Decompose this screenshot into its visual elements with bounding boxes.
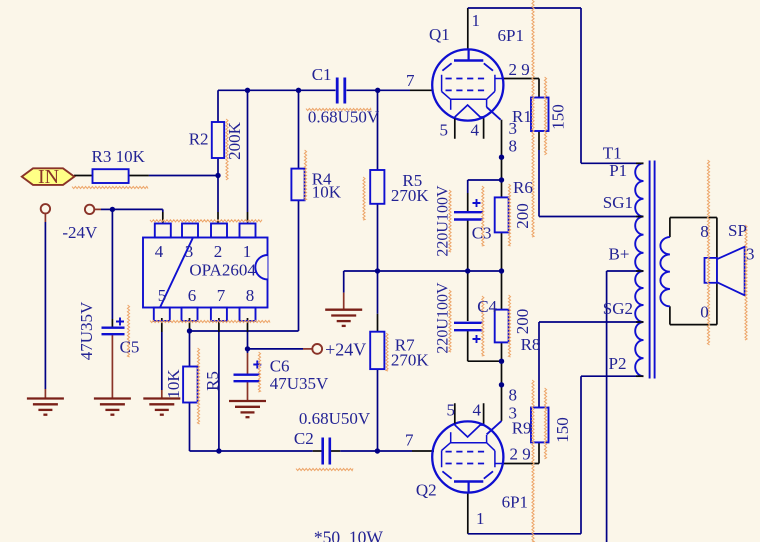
svg-text:10K: 10K (312, 183, 342, 202)
svg-text:P2: P2 (609, 354, 627, 373)
svg-text:47U35V: 47U35V (77, 301, 96, 360)
svg-text:270K: 270K (391, 186, 430, 205)
svg-text:P1: P1 (609, 161, 627, 180)
svg-text:6P1: 6P1 (502, 493, 528, 512)
svg-text:*50_10W: *50_10W (314, 528, 384, 542)
svg-text:T1: T1 (603, 144, 622, 163)
svg-text:3: 3 (746, 245, 755, 264)
svg-text:R2: R2 (189, 130, 209, 149)
svg-text:150: 150 (553, 417, 572, 443)
svg-text:1: 1 (472, 11, 481, 30)
svg-text:47U35V: 47U35V (270, 374, 329, 393)
svg-text:C3: C3 (472, 224, 492, 243)
svg-text:7: 7 (217, 286, 226, 305)
svg-text:Q2: Q2 (416, 481, 437, 500)
svg-text:R3 10K: R3 10K (92, 147, 146, 166)
svg-text:6P1: 6P1 (498, 26, 524, 45)
svg-text:220U100V: 220U100V (435, 185, 452, 257)
svg-text:C4: C4 (477, 297, 497, 316)
svg-text:+24V: +24V (325, 340, 366, 360)
svg-text:OPA2604: OPA2604 (189, 261, 256, 280)
svg-text:5: 5 (447, 401, 456, 420)
svg-text:200: 200 (513, 203, 532, 229)
svg-text:C2: C2 (294, 429, 314, 448)
svg-text:SP: SP (728, 221, 747, 240)
svg-text:R8: R8 (521, 335, 541, 354)
svg-text:C5: C5 (120, 338, 140, 357)
svg-text:IN: IN (38, 166, 59, 188)
svg-text:R5: R5 (203, 371, 222, 391)
svg-text:0: 0 (700, 303, 709, 322)
svg-text:200: 200 (513, 309, 532, 335)
svg-text:5: 5 (440, 121, 449, 140)
svg-text:0.68U50V: 0.68U50V (299, 409, 371, 428)
svg-text:8: 8 (700, 222, 709, 241)
svg-text:2: 2 (214, 242, 223, 261)
svg-text:2 9: 2 9 (509, 60, 530, 79)
svg-text:270K: 270K (391, 351, 430, 370)
svg-text:150: 150 (549, 104, 568, 130)
svg-text:8: 8 (509, 137, 518, 156)
svg-text:220U100V: 220U100V (435, 282, 452, 354)
svg-text:8: 8 (509, 386, 518, 405)
svg-text:Q1: Q1 (429, 25, 450, 44)
svg-text:6: 6 (188, 286, 197, 305)
svg-text:10K: 10K (164, 369, 183, 399)
svg-text:7: 7 (406, 71, 415, 90)
svg-text:3: 3 (185, 242, 194, 261)
svg-text:SG2: SG2 (603, 299, 633, 318)
svg-text:1: 1 (476, 509, 485, 528)
svg-text:B+: B+ (609, 245, 630, 264)
svg-text:4: 4 (473, 401, 482, 420)
svg-text:-24V: -24V (62, 223, 98, 242)
svg-text:4: 4 (155, 242, 164, 261)
svg-text:2 9: 2 9 (510, 445, 531, 464)
svg-text:7: 7 (405, 431, 414, 450)
svg-text:R6: R6 (513, 178, 533, 197)
svg-text:4: 4 (471, 121, 480, 140)
svg-text:3: 3 (509, 119, 518, 138)
svg-text:R9: R9 (512, 419, 532, 438)
svg-text:0.68U50V: 0.68U50V (308, 107, 380, 126)
svg-text:8: 8 (246, 286, 255, 305)
svg-text:C1: C1 (312, 65, 332, 84)
svg-text:5: 5 (158, 286, 167, 305)
svg-text:C6: C6 (270, 357, 290, 376)
svg-text:1: 1 (243, 242, 252, 261)
svg-text:200K: 200K (225, 121, 244, 160)
svg-text:SG1: SG1 (603, 193, 633, 212)
